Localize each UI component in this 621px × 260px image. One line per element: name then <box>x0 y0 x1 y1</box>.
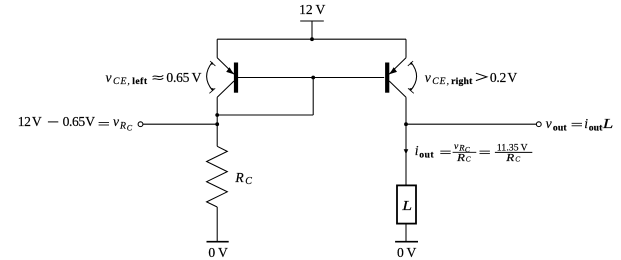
terminal vout open circle <box>536 122 541 127</box>
wire vRC <box>143 123 217 125</box>
resistor RC zigzag <box>207 146 228 207</box>
svg-text:CE,: CE, <box>113 76 131 87</box>
svg-text:L: L <box>602 116 614 132</box>
wire right collector drop <box>405 97 407 185</box>
svg-text:C: C <box>515 155 520 164</box>
svg-text:R: R <box>119 120 126 131</box>
svg-text:12 V: 12 V <box>299 2 325 17</box>
voltage arc vCE,left <box>207 61 216 93</box>
terminal vRC open circle <box>138 122 143 127</box>
svg-text:0.2: 0.2 <box>490 70 507 85</box>
svg-text:v: v <box>425 70 432 85</box>
power supply 12V stub <box>311 21 313 39</box>
wire top rail 12V <box>217 38 406 40</box>
svg-text:v: v <box>546 116 553 131</box>
svg-text:V: V <box>85 114 95 129</box>
node base junction <box>311 76 315 80</box>
svg-text:C: C <box>466 155 471 164</box>
transistor Q2 right PNP <box>387 58 406 97</box>
wire base-collector tie <box>217 114 313 116</box>
svg-text:R: R <box>505 152 514 163</box>
transistor Q1 left PNP <box>217 58 236 97</box>
svg-text:0 V: 0 V <box>397 245 417 260</box>
label 12V - 0.65V = vRC <box>18 114 133 133</box>
svg-text:12: 12 <box>18 114 31 129</box>
svg-text:V: V <box>192 70 202 85</box>
wire left collector drop <box>216 97 218 146</box>
svg-text:0 V: 0 V <box>208 245 228 260</box>
label vCE,left approx 0.65 V <box>106 70 202 87</box>
svg-text:CE,: CE, <box>432 76 450 87</box>
node supply junction <box>310 37 314 41</box>
svg-text:i: i <box>584 116 588 131</box>
svg-text:L: L <box>401 199 412 214</box>
svg-text:V: V <box>507 70 517 85</box>
svg-text:left: left <box>132 76 148 87</box>
svg-text:R: R <box>234 170 244 185</box>
wire base line <box>237 77 384 79</box>
wire vout <box>406 123 536 125</box>
label vout = iout L <box>546 116 614 134</box>
label RC resistor <box>234 170 252 187</box>
svg-text:V: V <box>32 114 42 129</box>
svg-text:out: out <box>553 122 567 133</box>
ground left <box>207 241 229 243</box>
wire left emitter drop <box>216 39 218 58</box>
wire right emitter drop <box>405 39 407 58</box>
wire load to ground <box>405 224 407 242</box>
svg-text:i: i <box>415 143 419 158</box>
svg-text:out: out <box>589 122 603 133</box>
wire resistor to ground <box>216 207 218 242</box>
ground right <box>395 241 418 243</box>
label iout = vRC/RC = 11.35V/RC <box>415 141 533 164</box>
wire base junction down <box>312 78 314 116</box>
voltage arc vCE,right <box>408 61 417 93</box>
svg-text:C: C <box>127 124 133 133</box>
label vCE,right > 0.2 V <box>425 70 518 87</box>
svg-text:R: R <box>456 152 465 163</box>
node vRC junction <box>215 122 219 126</box>
svg-text:right: right <box>451 76 473 87</box>
svg-text:0.65: 0.65 <box>63 114 86 129</box>
node tie junction on collector <box>215 113 219 117</box>
svg-text:C: C <box>245 176 252 187</box>
load L box <box>397 185 416 223</box>
svg-text:v: v <box>113 114 120 129</box>
current arrow iout <box>404 149 409 154</box>
node vout junction <box>404 122 408 126</box>
svg-text:0.65: 0.65 <box>166 70 189 85</box>
svg-text:v: v <box>106 70 113 85</box>
svg-text:out: out <box>419 150 434 161</box>
